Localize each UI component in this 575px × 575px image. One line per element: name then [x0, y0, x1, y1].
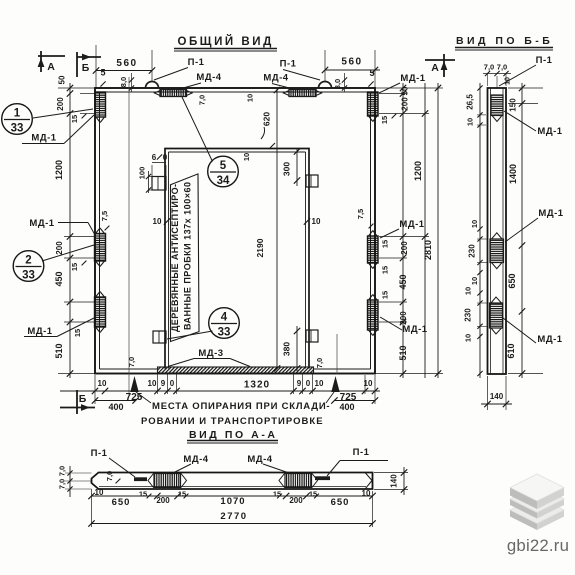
svg-text:33: 33 [22, 270, 35, 282]
BB dim 140 [487, 376, 489, 410]
svg-text:7,5: 7,5 [100, 211, 109, 221]
right chain extension lines [375, 87, 443, 89]
svg-text:26,5: 26,5 [466, 94, 475, 110]
right chain line [402, 83, 404, 378]
dim 1200 line right [424, 83, 426, 378]
dim 400 right [334, 400, 375, 402]
logo slab top [510, 488, 537, 510]
svg-text:7,0: 7,0 [58, 479, 67, 489]
svg-text:10: 10 [505, 77, 512, 85]
svg-text:9: 9 [161, 379, 166, 388]
AA dim 2770 [92, 523, 373, 525]
anchor MD-1 R3 [368, 300, 379, 330]
bottom dim line [60, 390, 380, 392]
svg-text:МД-4: МД-4 [183, 454, 208, 465]
svg-text:0: 0 [306, 379, 311, 388]
leader support right [326, 392, 334, 403]
svg-text:400: 400 [108, 402, 123, 412]
plug top-left [152, 177, 166, 191]
svg-text:МД-1: МД-1 [538, 208, 563, 219]
lug P-1 left [146, 82, 159, 89]
svg-text:140: 140 [490, 392, 504, 401]
svg-text:33: 33 [11, 123, 24, 135]
svg-text:0: 0 [163, 153, 168, 162]
support mark right [331, 376, 339, 392]
svg-text:1: 1 [14, 108, 21, 120]
svg-text:МД-1: МД-1 [402, 324, 427, 335]
section mark B bottom [76, 390, 78, 414]
svg-text:7,0: 7,0 [105, 471, 114, 481]
svg-text:5: 5 [220, 160, 227, 172]
anchor MD-1 L1 [95, 92, 106, 117]
svg-text:МД-4: МД-4 [247, 454, 272, 465]
dim 380 [296, 326, 298, 371]
svg-text:ВИД ПО А-А: ВИД ПО А-А [189, 429, 277, 441]
section trace B-B [128, 77, 130, 396]
anchor MD-1 R2 [368, 236, 379, 263]
anchor MD-1 L2 [95, 234, 106, 262]
BB anchor MD-1 bot [490, 303, 503, 328]
svg-text:ОБЩИЙ ВИД: ОБЩИЙ ВИД [178, 35, 275, 48]
svg-text:МД-1: МД-1 [537, 334, 562, 345]
leader 5/34 [182, 97, 213, 162]
svg-text:П-1: П-1 [536, 55, 553, 66]
svg-text:А: А [431, 62, 439, 74]
svg-text:7,0: 7,0 [198, 95, 207, 105]
svg-text:10: 10 [148, 379, 157, 388]
svg-text:15: 15 [73, 329, 82, 337]
left chain line [69, 83, 71, 378]
AA dim 7,0 7,0 left [69, 466, 71, 497]
leader 1/33 [33, 109, 93, 118]
svg-text:МД-1: МД-1 [29, 218, 54, 229]
svg-text:П-1: П-1 [353, 447, 370, 458]
section mark A right [425, 59, 455, 61]
svg-text:1400: 1400 [508, 164, 518, 184]
svg-text:10: 10 [362, 489, 371, 498]
svg-text:50: 50 [58, 75, 67, 84]
bottom extension lines [94, 375, 96, 404]
AA anchor MD-4 right [285, 474, 312, 488]
svg-text:5: 5 [369, 68, 374, 78]
dim 400 left [95, 400, 136, 402]
svg-text:МД-1: МД-1 [31, 133, 56, 144]
svg-text:15: 15 [70, 115, 79, 123]
AA anchor MD-4 left [154, 474, 181, 488]
AA lug P-1 mark left [134, 477, 147, 481]
svg-text:МД-1: МД-1 [400, 73, 425, 84]
panel outline [95, 88, 375, 374]
callout 4/33 [209, 308, 240, 339]
svg-text:15: 15 [70, 263, 79, 271]
dim 300 [296, 148, 298, 186]
section mark A left [38, 55, 65, 57]
svg-text:П-1: П-1 [280, 59, 297, 70]
svg-text:7,0: 7,0 [497, 63, 507, 72]
svg-text:1200: 1200 [413, 161, 423, 181]
svg-text:230: 230 [464, 308, 473, 322]
svg-text:15: 15 [381, 291, 390, 299]
svg-text:gbi22.ru: gbi22.ru [507, 536, 569, 555]
plug bottom-left [153, 331, 166, 343]
svg-text:10: 10 [312, 217, 321, 226]
svg-text:650: 650 [507, 273, 517, 288]
callout 2/33 [13, 251, 44, 282]
svg-text:10: 10 [464, 334, 473, 342]
svg-text:200: 200 [401, 97, 410, 111]
svg-text:510: 510 [398, 345, 408, 360]
leader support left [136, 392, 151, 403]
svg-text:6: 6 [152, 153, 157, 162]
svg-text:МД-4: МД-4 [196, 72, 221, 83]
svg-text:7,0: 7,0 [58, 466, 67, 476]
opening inner lines [169, 151, 306, 153]
BB bar outline [488, 88, 507, 374]
svg-text:ВАННЫЕ ПРОБКИ 137х 100×60: ВАННЫЕ ПРОБКИ 137х 100×60 [183, 182, 193, 330]
svg-text:200: 200 [56, 97, 65, 111]
svg-text:10: 10 [464, 287, 473, 295]
dim 560 right [325, 69, 380, 71]
callout 5/34 [208, 156, 239, 187]
svg-text:0: 0 [170, 379, 175, 388]
panel inner edge lines [100, 91, 371, 93]
svg-text:300: 300 [282, 162, 292, 176]
logo slab bottom [510, 510, 537, 530]
svg-text:140: 140 [390, 474, 399, 488]
svg-text:400: 400 [339, 402, 354, 412]
svg-text:450: 450 [54, 271, 64, 286]
svg-text:Б: Б [82, 62, 90, 74]
section mark B top [76, 52, 78, 77]
svg-text:15: 15 [381, 266, 390, 274]
svg-text:9: 9 [297, 379, 302, 388]
plug bottom-right [306, 330, 318, 342]
BB anchor MD-1 mid [490, 239, 504, 263]
svg-text:34: 34 [217, 175, 230, 187]
svg-text:МД-4: МД-4 [263, 73, 288, 84]
AA dim 140 right [374, 472, 408, 474]
svg-text:560: 560 [116, 58, 137, 69]
svg-text:15: 15 [309, 490, 317, 499]
svg-text:510: 510 [54, 343, 64, 358]
AA end chamfer right [366, 473, 373, 481]
BB ext left [477, 114, 486, 116]
svg-text:100: 100 [138, 167, 147, 180]
svg-text:2: 2 [25, 255, 31, 267]
svg-text:7,5: 7,5 [356, 209, 365, 219]
svg-text:50: 50 [401, 86, 410, 95]
svg-text:2770: 2770 [220, 511, 247, 522]
svg-text:РОВАНИИ И ТРАНСПОРТИРОВКЕ: РОВАНИИ И ТРАНСПОРТИРОВКЕ [141, 416, 323, 427]
svg-text:10: 10 [246, 94, 255, 102]
support trace right [336, 334, 338, 374]
opening outline [165, 149, 309, 369]
svg-text:7,0: 7,0 [127, 357, 136, 367]
anchor MD-1 L3 [95, 297, 106, 327]
svg-text:МД-3: МД-3 [198, 348, 223, 359]
svg-text:2190: 2190 [255, 238, 265, 257]
anchor MD-4 T2 [289, 90, 316, 97]
svg-text:4: 4 [221, 312, 228, 324]
leader 4/33 [167, 331, 213, 339]
svg-text:7,0: 7,0 [484, 63, 494, 72]
svg-text:650: 650 [112, 497, 131, 508]
svg-text:610: 610 [506, 343, 516, 358]
dim 620 [276, 88, 278, 151]
BB left chain [479, 83, 481, 378]
BB bar inner lines [490, 88, 492, 374]
svg-text:5: 5 [100, 68, 105, 78]
svg-text:33: 33 [218, 327, 231, 339]
svg-text:МД-1: МД-1 [27, 326, 52, 337]
BB anchor MD-1 top [491, 95, 503, 116]
anchor MD-1 R1 [368, 92, 379, 116]
svg-text:15: 15 [273, 490, 281, 499]
svg-text:200: 200 [156, 496, 170, 505]
svg-text:15: 15 [381, 240, 390, 248]
svg-text:450: 450 [398, 274, 408, 289]
svg-text:10: 10 [470, 277, 479, 285]
svg-text:1200: 1200 [54, 160, 64, 180]
svg-text:7,0: 7,0 [315, 358, 324, 368]
support mark left [130, 376, 138, 392]
svg-text:150: 150 [509, 98, 518, 112]
svg-text:МД-1: МД-1 [537, 126, 562, 137]
svg-text:200: 200 [400, 241, 409, 255]
svg-text:230: 230 [468, 244, 477, 258]
svg-text:ВИД ПО Б-Б: ВИД ПО Б-Б [456, 35, 552, 47]
BB ext right [508, 87, 543, 89]
svg-text:10: 10 [315, 379, 324, 388]
dim 560 left [96, 70, 152, 72]
plug top-right [306, 175, 318, 187]
dim 2810 line right [437, 83, 439, 378]
AA bar outline [92, 473, 373, 490]
svg-text:Б: Б [79, 393, 87, 405]
svg-text:15: 15 [139, 490, 147, 499]
lug P-1 right [319, 82, 332, 89]
svg-text:200: 200 [289, 496, 303, 505]
AA chain line [92, 495, 373, 497]
dim 2190 [276, 151, 278, 369]
svg-text:380: 380 [282, 342, 292, 356]
batten MD-3 [158, 367, 314, 373]
svg-text:10: 10 [364, 379, 373, 388]
svg-text:10: 10 [98, 379, 107, 388]
svg-text:650: 650 [331, 497, 350, 508]
svg-text:10: 10 [470, 220, 479, 228]
svg-text:МД-1: МД-1 [399, 219, 424, 230]
svg-text:1070: 1070 [220, 496, 245, 507]
svg-text:200: 200 [55, 241, 64, 255]
left chain extension lines [58, 87, 95, 89]
anchor MD-4 T1 [160, 90, 187, 97]
svg-text:МЕСТА ОПИРАНИЯ ПРИ СКЛАДИ-: МЕСТА ОПИРАНИЯ ПРИ СКЛАДИ- [152, 401, 330, 412]
svg-text:10: 10 [153, 217, 162, 226]
svg-text:560: 560 [341, 57, 362, 68]
svg-text:200: 200 [399, 311, 408, 325]
logo slab middle [510, 499, 537, 519]
callout 1/33 [2, 104, 33, 135]
AA bar inner line [99, 486, 366, 488]
svg-text:1320: 1320 [244, 380, 270, 391]
svg-text:15: 15 [380, 116, 389, 124]
svg-text:10: 10 [466, 118, 475, 126]
leader 2/33 [42, 245, 94, 261]
note frame parallelogram [171, 174, 200, 342]
svg-text:15: 15 [178, 490, 186, 499]
svg-text:2810: 2810 [423, 240, 433, 260]
svg-text:10: 10 [242, 153, 251, 161]
svg-text:П-1: П-1 [188, 57, 205, 68]
svg-text:П-1: П-1 [91, 448, 108, 459]
svg-text:8,0: 8,0 [333, 79, 342, 89]
svg-text:620: 620 [262, 112, 272, 126]
svg-text:ДЕРЕВЯННЫЕ АНТИСЕПТИРО-: ДЕРЕВЯННЫЕ АНТИСЕПТИРО- [170, 184, 180, 332]
svg-text:8,0: 8,0 [119, 77, 128, 87]
svg-text:А: А [47, 61, 55, 73]
AA lug P-1 mark right [315, 476, 330, 480]
BB right chain [521, 83, 523, 378]
